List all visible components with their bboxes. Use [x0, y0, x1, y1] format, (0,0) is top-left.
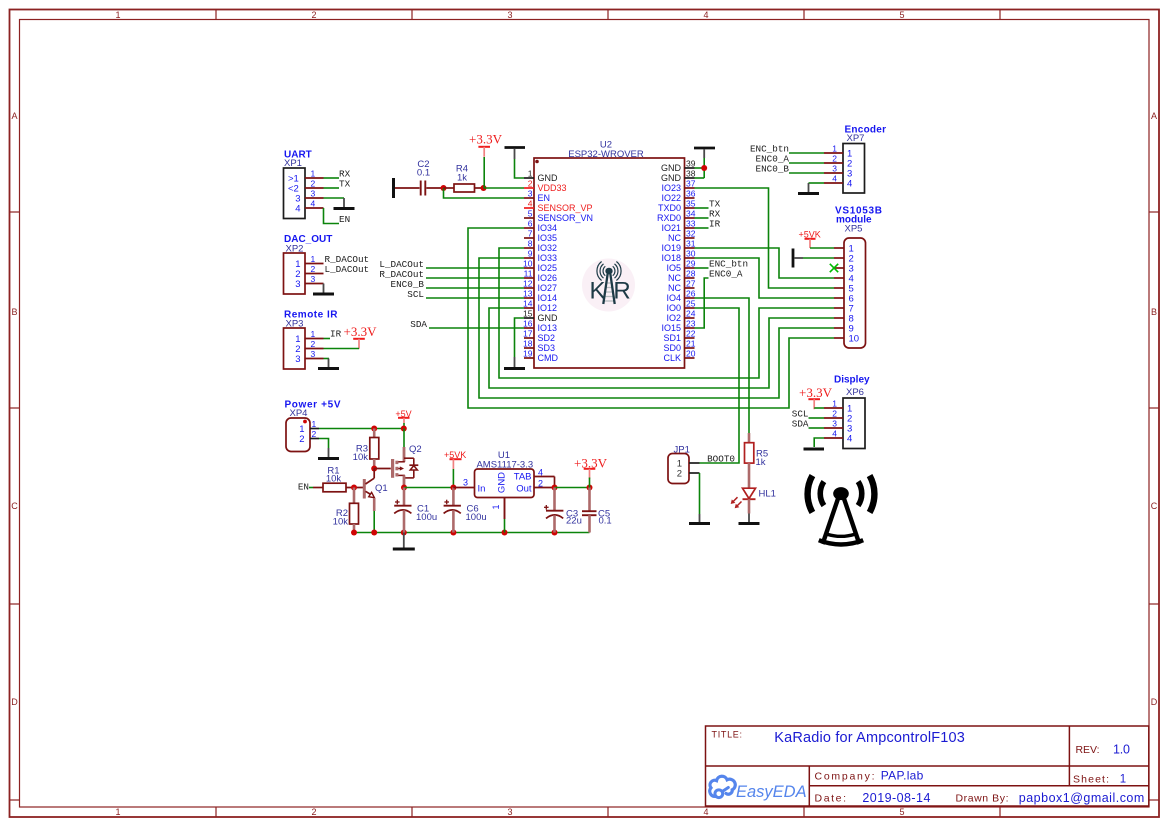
svg-text:ENC0_B: ENC0_B [756, 164, 790, 175]
svg-text:+3.3V: +3.3V [799, 385, 833, 400]
svg-text:17: 17 [523, 329, 533, 339]
svg-text:IO21: IO21 [661, 223, 681, 233]
junction node +5V [401, 426, 407, 432]
svg-text:15: 15 [523, 309, 533, 319]
U2 pin 26 IO4 [666, 289, 695, 304]
svg-text:1: 1 [311, 254, 316, 264]
U2 pin 4 SENSOR_VP [524, 199, 593, 214]
junction node Q2 gate [371, 466, 377, 472]
wire XP3 pin1 IR [324, 338, 331, 340]
svg-text:3: 3 [311, 274, 316, 284]
svg-text:Sheet:: Sheet: [1073, 773, 1109, 785]
wire XP7 pin1 [789, 152, 824, 154]
U2 pin 39 GND [661, 159, 696, 174]
wire XP1 pin2 TX [324, 187, 340, 189]
U2 pin 16 IO13 [523, 319, 557, 334]
resistor R2 [333, 488, 359, 533]
svg-text:2: 2 [299, 434, 304, 445]
ground HL1 [748, 514, 750, 523]
ground bottom center [403, 533, 405, 549]
power +3.3V flag at XP3 [344, 324, 378, 349]
capacitor C1 [394, 488, 437, 533]
svg-text:1k: 1k [457, 172, 467, 183]
wire Q2 top lead [403, 429, 405, 462]
wire XP6 pin2 [809, 417, 825, 419]
resistor R1 [313, 465, 363, 492]
svg-text:1: 1 [115, 10, 120, 20]
power +5VK flag at C6 [444, 450, 466, 469]
wire IO19 to XP5 pin4 [695, 248, 835, 278]
svg-text:3: 3 [832, 419, 837, 429]
ground XP6 pin4 [804, 448, 825, 451]
ground XP4 pin2 [328, 448, 330, 458]
wire IO33 to XP5 pin9 [479, 258, 834, 398]
svg-text:SDA: SDA [410, 319, 427, 330]
wire JP1 pin2 to ground [699, 473, 701, 514]
U2 pin 32 NC [668, 229, 696, 244]
U2 pin 11 IO26 [524, 269, 557, 284]
svg-text:37: 37 [686, 179, 696, 189]
resistor R3 [353, 429, 379, 469]
svg-text:GND: GND [538, 313, 559, 323]
svg-text:14: 14 [523, 299, 533, 309]
U2 pin 8 IO32 [524, 239, 557, 254]
U2 pin 7 IO35 [524, 229, 557, 244]
svg-text:10k: 10k [333, 516, 349, 527]
svg-text:28: 28 [686, 269, 696, 279]
svg-text:4: 4 [295, 204, 300, 215]
svg-text:TXD0: TXD0 [658, 203, 681, 213]
U2 pin 30 IO18 [661, 249, 695, 264]
svg-text:SCL: SCL [407, 289, 424, 300]
power +3.3V flag top [469, 132, 503, 157]
svg-text:16: 16 [523, 319, 533, 329]
transistor Q2 PMOS [374, 444, 421, 478]
U2 pin 33 IO21 [661, 219, 695, 234]
svg-text:1: 1 [832, 144, 837, 154]
svg-text:3: 3 [528, 189, 533, 199]
svg-text:L_DACOut: L_DACOut [325, 264, 370, 275]
U2 pin 37 IO23 [661, 179, 695, 194]
svg-text:2: 2 [538, 478, 543, 488]
svg-text:22: 22 [686, 329, 696, 339]
ground XP7 pin4 [808, 183, 810, 193]
svg-text:0.1: 0.1 [417, 168, 430, 179]
power +3.3V flag at XP6 [799, 385, 833, 409]
svg-text:K: K [589, 278, 605, 305]
svg-text:TAB: TAB [514, 472, 532, 483]
op-amp U2 ESP32-WROVER IC body [534, 158, 685, 368]
svg-text:BOOT0: BOOT0 [707, 454, 735, 465]
U2 pin 24 IO2 [666, 309, 695, 324]
svg-text:10: 10 [523, 259, 533, 269]
regulator U1 AMS1117-3.3 [453, 450, 554, 519]
wire TXD0 TX stub [695, 207, 709, 209]
svg-text:4: 4 [311, 199, 316, 209]
U2 pin 25 IO0 [666, 299, 695, 314]
svg-text:NC: NC [668, 233, 681, 243]
ground XP2 pin3 [323, 284, 325, 294]
svg-text:papbox1@gmail.com: papbox1@gmail.com [1019, 791, 1145, 805]
svg-text:IO32: IO32 [538, 243, 558, 253]
svg-text:36: 36 [686, 189, 696, 199]
svg-text:REV:: REV: [1076, 744, 1100, 756]
svg-text:B: B [1151, 307, 1157, 317]
ground JP1 pin2 [699, 514, 701, 523]
junction node R2/R1/base [351, 485, 357, 491]
svg-text:GND: GND [661, 173, 682, 183]
wire IO12 to XP5 pin8 [489, 308, 834, 388]
net label ENC0_B wire to IO27 [391, 279, 524, 290]
svg-text:3: 3 [832, 164, 837, 174]
wire XP1 pin3 to ground [324, 197, 345, 199]
junction node R4/+3.3V/VDD33 [481, 185, 487, 191]
ground XP5 pin2 sideways [793, 249, 803, 268]
svg-text:KaRadio for AmpcontrolF103: KaRadio for AmpcontrolF103 [774, 730, 965, 746]
svg-text:3: 3 [507, 807, 512, 817]
power +5VK flag at XP5 [799, 230, 821, 248]
svg-text:2: 2 [832, 409, 837, 419]
wire EN branch to U2 pin3 [444, 188, 525, 198]
svg-text:9: 9 [528, 249, 533, 259]
antenna icon [808, 476, 875, 545]
wire +3.3V stem to node [589, 478, 591, 488]
svg-text:GND: GND [538, 173, 559, 183]
svg-text:5: 5 [528, 209, 533, 219]
svg-text:29: 29 [686, 259, 696, 269]
wire RXD0 RX stub [695, 217, 709, 219]
U2 pin 15 GND [523, 309, 558, 324]
svg-text:C: C [11, 501, 18, 511]
svg-text:SD1: SD1 [663, 333, 681, 343]
U2 pin 27 NC [668, 279, 696, 294]
svg-text:IO2: IO2 [666, 313, 681, 323]
svg-text:18: 18 [523, 339, 533, 349]
U2 pin 34 RXD0 [657, 209, 696, 224]
svg-text:39: 39 [686, 159, 696, 169]
svg-text:35: 35 [686, 199, 696, 209]
wire EN to R1 [309, 487, 313, 489]
U2 pin 29 IO5 [666, 259, 695, 274]
svg-text:D: D [1151, 697, 1158, 707]
svg-text:GND: GND [497, 472, 508, 493]
svg-text:1: 1 [832, 399, 837, 409]
capacitor C6 [444, 488, 487, 533]
EasyEDA logo [710, 776, 807, 801]
wire XP1 pin4 EN [324, 208, 340, 224]
U2 pin 1 GND [524, 169, 558, 184]
svg-text:25: 25 [686, 299, 696, 309]
svg-text:3: 3 [311, 349, 316, 359]
U2 pin 20 CLK [663, 349, 695, 364]
svg-text:Displey: Displey [834, 374, 870, 385]
svg-text:IO27: IO27 [538, 283, 558, 293]
wire XP5 pin1 [810, 247, 834, 249]
svg-text:4: 4 [832, 429, 837, 439]
svg-text:IO23: IO23 [661, 183, 681, 193]
U2 pin 9 IO33 [524, 249, 557, 264]
svg-text:ESP32-WROVER: ESP32-WROVER [568, 149, 644, 160]
svg-text:Q2: Q2 [409, 444, 422, 455]
junction node pin39 GND [701, 165, 707, 171]
net label L_DACOut wire to IO25 [379, 259, 524, 270]
svg-text:13: 13 [523, 289, 533, 299]
svg-text:12: 12 [523, 279, 533, 289]
svg-text:Drawn By:: Drawn By: [956, 793, 1009, 805]
svg-text:XP5: XP5 [845, 224, 863, 235]
svg-text:+3.3V: +3.3V [469, 132, 503, 147]
svg-text:1: 1 [311, 169, 316, 179]
wire to VDD33 [484, 187, 525, 189]
connector XP2 DAC_OUT [284, 234, 333, 294]
resistor R4 [444, 164, 484, 192]
power +3.3V flag at C5 [574, 455, 608, 479]
svg-text:PAP.lab: PAP.lab [881, 768, 924, 782]
svg-text:8: 8 [528, 239, 533, 249]
junction node C2/R4/EN [441, 185, 447, 191]
svg-text:IO35: IO35 [538, 233, 558, 243]
svg-text:CLK: CLK [663, 353, 681, 363]
svg-text:IO18: IO18 [661, 253, 681, 263]
svg-text:TITLE:: TITLE: [712, 730, 743, 740]
svg-text:IO14: IO14 [538, 293, 558, 303]
U2 pin 2 VDD33 [524, 179, 567, 194]
wire IO0 BOOT0 to JP1 [695, 308, 740, 463]
connector XP6 Displey [824, 374, 870, 448]
svg-text:2: 2 [832, 154, 837, 164]
svg-text:SENSOR_VN: SENSOR_VN [538, 213, 594, 223]
svg-text:10: 10 [849, 334, 860, 345]
svg-text:NC: NC [668, 283, 681, 293]
svg-text:2: 2 [311, 179, 316, 189]
svg-text:26: 26 [686, 289, 696, 299]
svg-text:5: 5 [899, 807, 904, 817]
svg-text:3: 3 [507, 10, 512, 20]
wire XP6 pin3 [809, 427, 825, 429]
svg-text:2019-08-14: 2019-08-14 [862, 791, 930, 805]
svg-text:CMD: CMD [538, 353, 559, 363]
svg-text:33: 33 [686, 219, 696, 229]
net label R_DACOut wire to IO26 [379, 269, 524, 280]
svg-text:A: A [11, 111, 17, 121]
ground bar left of C2 [392, 178, 395, 198]
svg-text:0.1: 0.1 [599, 515, 612, 526]
U2 pin 17 SD2 [523, 329, 555, 344]
svg-text:IR: IR [330, 329, 342, 340]
svg-text:1: 1 [491, 504, 501, 509]
wire +5V stem [403, 423, 405, 429]
wire XP4 pin2 to ground [319, 439, 329, 449]
svg-text:SD0: SD0 [663, 343, 681, 353]
svg-text:IO22: IO22 [661, 193, 681, 203]
svg-text:6: 6 [528, 219, 533, 229]
svg-text:TX: TX [339, 179, 351, 190]
wire XP1 pin1 RX [324, 177, 340, 179]
U2 pin 3 EN [524, 189, 550, 204]
svg-text:Date:: Date: [815, 793, 847, 805]
svg-text:4: 4 [538, 468, 543, 478]
capacitor C2 [395, 159, 444, 196]
svg-text:IO33: IO33 [538, 253, 558, 263]
svg-text:IO13: IO13 [538, 323, 558, 333]
U2 pin 28 NC [668, 269, 696, 284]
svg-text:B: B [11, 307, 17, 317]
wire IO5 ENC_btn stub [695, 267, 709, 269]
svg-text:IO25: IO25 [538, 263, 558, 273]
net label SDA wire to IO13 [410, 319, 524, 330]
U2 pin 36 IO22 [661, 189, 695, 204]
wire IO4 to R5 [695, 298, 750, 433]
svg-text:EN: EN [538, 193, 551, 203]
svg-text:19: 19 [523, 349, 533, 359]
svg-text:EN: EN [298, 481, 309, 492]
junction node C6/U1-In [450, 485, 456, 491]
connector JP1 [668, 445, 700, 484]
title block frame [706, 726, 1149, 806]
wire U2 pin15 GND [515, 318, 525, 357]
svg-text:100u: 100u [416, 512, 437, 523]
svg-text:XP7: XP7 [847, 133, 865, 144]
wire ENC0_A to IO15 [695, 278, 709, 328]
svg-text:3: 3 [295, 279, 300, 290]
svg-text:4: 4 [703, 807, 708, 817]
connector XP5 VS1053B module [834, 205, 882, 348]
svg-text:4: 4 [703, 10, 708, 20]
wire +5VK to node [452, 469, 454, 488]
svg-text:22u: 22u [566, 515, 582, 526]
LED HL1 [731, 488, 776, 508]
junction node U1 out / C3 [552, 485, 558, 491]
svg-text:SD2: SD2 [538, 333, 556, 343]
svg-text:1: 1 [312, 419, 317, 429]
svg-text:32: 32 [686, 229, 696, 239]
svg-text:IO12: IO12 [538, 303, 558, 313]
svg-text:4: 4 [528, 199, 533, 209]
svg-text:IO4: IO4 [666, 293, 681, 303]
wire XP5 pin2 [803, 257, 834, 259]
wire XP7 pin4 to ground [809, 182, 825, 184]
ground XP1 pin3 [343, 198, 345, 208]
svg-text:1: 1 [115, 807, 120, 817]
wire IO23 to XP5 pin5 [695, 188, 835, 288]
svg-text:10k: 10k [326, 473, 342, 484]
svg-text:2: 2 [311, 807, 316, 817]
svg-text:IO5: IO5 [666, 263, 681, 273]
svg-text:2: 2 [311, 10, 316, 20]
U2 pin 12 IO27 [523, 279, 557, 294]
wire Q2 drain down [403, 475, 406, 487]
U2 pin 18 SD3 [523, 339, 555, 354]
svg-text:3: 3 [463, 478, 468, 488]
wire IO18 to XP5 pin6 [695, 258, 835, 298]
svg-text:IO0: IO0 [666, 303, 681, 313]
wire +5V rail from XP4 pin1 [319, 428, 404, 430]
U2 pin 21 SD0 [663, 339, 695, 354]
svg-text:23: 23 [686, 319, 696, 329]
svg-text:Company:: Company: [815, 771, 875, 783]
svg-text:Out: Out [516, 484, 532, 495]
wire IO34 to XP5 pin10 [468, 228, 834, 408]
connector XP7 Encoder [824, 125, 886, 194]
wire U1 GND to rail [504, 519, 506, 533]
svg-text:In: In [478, 484, 486, 495]
svg-text:3: 3 [311, 189, 316, 199]
svg-text:IR: IR [709, 219, 721, 230]
svg-text:R: R [613, 278, 630, 305]
wire GND pins 39/38 [695, 158, 705, 178]
wire XP6 pin4 to ground [814, 438, 824, 447]
U2 pin 14 IO12 [523, 299, 557, 314]
connector XP1 UART [284, 150, 324, 219]
svg-text:30: 30 [686, 249, 696, 259]
svg-text:1k: 1k [756, 457, 766, 468]
svg-text:1: 1 [528, 169, 533, 179]
svg-text:RXD0: RXD0 [657, 213, 681, 223]
U2 pin 6 IO34 [524, 219, 557, 234]
U2 pin 31 IO19 [661, 239, 695, 254]
wire XP7 pin3 [789, 172, 824, 174]
svg-text:EasyEDA: EasyEDA [736, 783, 807, 801]
svg-text:1.0: 1.0 [1113, 742, 1130, 756]
svg-text:1: 1 [311, 329, 316, 339]
svg-text:GND: GND [661, 163, 682, 173]
svg-text:1: 1 [1120, 773, 1126, 785]
KaR antenna logo [582, 259, 635, 312]
net label SCL wire to IO14 [407, 289, 524, 300]
svg-text:ENC0_A: ENC0_A [709, 269, 743, 280]
svg-text:4: 4 [847, 434, 852, 445]
svg-text:Q1: Q1 [375, 483, 388, 494]
svg-text:7: 7 [528, 229, 533, 239]
svg-text:100u: 100u [466, 512, 487, 523]
wire Q1 emitter down [373, 498, 376, 533]
svg-text:4: 4 [832, 174, 837, 184]
junction nodes on ground rail [351, 530, 558, 536]
svg-text:D: D [11, 697, 18, 707]
svg-text:31: 31 [686, 239, 696, 249]
wire U1 out to +3.3V node [555, 487, 590, 489]
svg-text:2: 2 [677, 469, 682, 480]
svg-text:2: 2 [312, 429, 317, 439]
svg-text:EN: EN [339, 214, 350, 225]
svg-text:11: 11 [524, 269, 533, 279]
svg-text:IO26: IO26 [538, 273, 558, 283]
svg-text:NC: NC [668, 273, 681, 283]
no-connect flag XP5 pin3 [830, 264, 838, 272]
wire IO32 to XP5 pin7 [499, 248, 834, 378]
wire XP7 pin2 [789, 162, 824, 164]
wire XP3 pin2 to +3.3V [324, 348, 360, 350]
ground U2 pin15 [514, 357, 516, 368]
wire Q2 drain to U1 In [404, 487, 453, 489]
U2 pin 5 SENSOR_VN [524, 209, 593, 224]
svg-text:VDD33: VDD33 [538, 183, 567, 193]
junction node R3 top [371, 426, 377, 432]
svg-text:34: 34 [686, 209, 696, 219]
connector XP4 Power +5V [285, 400, 341, 452]
junction node C5 / +3.3V [587, 485, 593, 491]
wire ground rail bottom [354, 532, 590, 534]
svg-text:2: 2 [528, 179, 533, 189]
U2 pin 38 GND [661, 169, 696, 184]
power +5V flag [395, 409, 411, 423]
svg-text:SDA: SDA [792, 419, 809, 430]
resistor R5 [745, 433, 769, 488]
svg-text:XP6: XP6 [846, 387, 864, 398]
svg-text:IO19: IO19 [661, 243, 681, 253]
U2 pin 22 SD1 [663, 329, 695, 344]
svg-text:HL1: HL1 [759, 489, 776, 500]
